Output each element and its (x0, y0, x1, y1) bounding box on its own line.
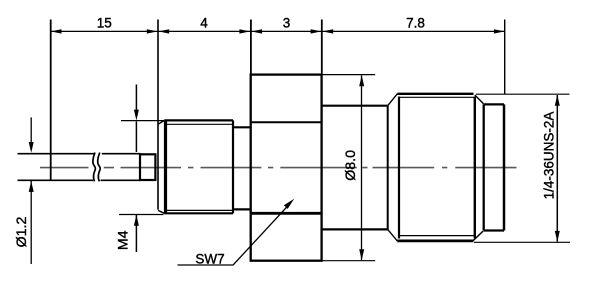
svg-text:15: 15 (97, 16, 112, 31)
svg-text:Ø1.2: Ø1.2 (14, 217, 30, 248)
svg-text:Ø8.0: Ø8.0 (343, 150, 359, 181)
svg-text:1/4-36UNS-2A: 1/4-36UNS-2A (542, 112, 557, 200)
svg-text:3: 3 (283, 16, 291, 31)
svg-text:M4: M4 (115, 230, 131, 250)
svg-text:SW7: SW7 (195, 251, 224, 266)
svg-text:7.8: 7.8 (406, 16, 425, 31)
svg-text:4: 4 (200, 16, 208, 31)
